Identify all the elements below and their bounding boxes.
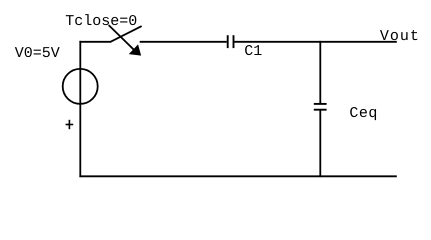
capacitor Ceq bottom plate bbox=[314, 109, 327, 111]
wire C1 to Vout bbox=[234, 41, 396, 43]
wire left vertical through source bbox=[79, 41, 81, 177]
svg-text:V0=5V: V0=5V bbox=[15, 45, 60, 62]
switch U1 blade bbox=[111, 26, 142, 41]
svg-text:C1: C1 bbox=[244, 43, 262, 60]
wire switch to C1 bbox=[140, 41, 227, 43]
svg-text:Ceq: Ceq bbox=[349, 105, 378, 122]
voltage source polarity plus mark bbox=[66, 124, 74, 126]
wire top-left horizontal from source to switch bbox=[79, 41, 110, 43]
capacitor C1 right plate bbox=[233, 35, 235, 48]
svg-text:Tclose=0: Tclose=0 bbox=[65, 13, 137, 30]
wire Ceq branch lower vertical bbox=[319, 110, 321, 178]
switch U1 actuator arrow shaft bbox=[109, 26, 134, 51]
wire Ceq branch upper vertical bbox=[319, 41, 321, 104]
voltage source V0 circle bbox=[63, 69, 98, 104]
wire bottom horizontal bbox=[79, 175, 396, 177]
switch U1 actuator arrowhead bbox=[130, 45, 141, 55]
capacitor Ceq top plate bbox=[314, 103, 327, 105]
svg-text:Vout: Vout bbox=[380, 28, 420, 45]
capacitor C1 left plate bbox=[227, 35, 229, 48]
